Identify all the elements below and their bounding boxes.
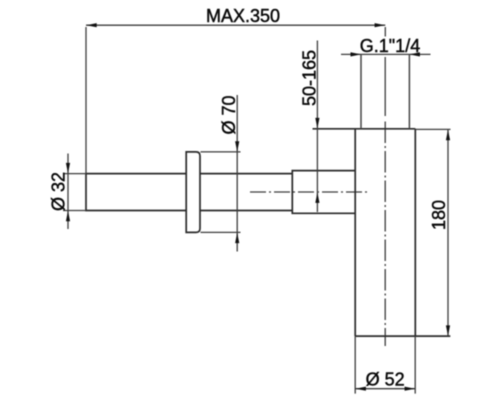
extension lines dia32 pipe bbox=[63, 174, 86, 211]
svg-text:Ø 70: Ø 70 bbox=[219, 95, 239, 134]
inlet pipe bbox=[86, 174, 292, 211]
wall flange bbox=[186, 152, 200, 233]
svg-text:Ø 32: Ø 32 bbox=[48, 172, 68, 211]
dimension line G.1"1/4 bbox=[341, 53, 431, 55]
arrow 50-165 up bbox=[315, 192, 319, 203]
dimension line 180 bbox=[447, 130, 449, 336]
arrow 180 down bbox=[446, 325, 450, 336]
extension line right (riser center) bbox=[384, 27, 386, 37]
riser pipe bbox=[361, 54, 409, 128]
svg-text:G.1"1/4: G.1"1/4 bbox=[360, 36, 420, 56]
arrow dia32 up bbox=[66, 211, 70, 222]
svg-text:50-165: 50-165 bbox=[300, 50, 320, 106]
arrow dia70 up bbox=[235, 233, 239, 244]
arrow dia52 left bbox=[355, 387, 366, 391]
extension lines dia52 bbox=[355, 336, 415, 394]
dimension line dia70 bbox=[236, 95, 238, 252]
centerline inlet horizontal bbox=[250, 191, 370, 193]
dimension line 50-165 bbox=[316, 41, 318, 213]
sleeve nut bbox=[292, 171, 355, 214]
arrow 50-165 down bbox=[315, 118, 319, 128]
arrow dia32 down bbox=[66, 163, 70, 174]
extension line left (pipe end) bbox=[85, 27, 87, 174]
centerline riser vertical lower bbox=[384, 122, 386, 347]
svg-text:180: 180 bbox=[429, 200, 449, 230]
dimension line dia32 bbox=[67, 154, 69, 230]
dimension line MAX.350 bbox=[86, 24, 385, 26]
arrow MAX.350 left bbox=[86, 23, 97, 27]
arrow MAX.350 right bbox=[375, 23, 386, 27]
svg-text:MAX.350: MAX.350 bbox=[206, 6, 280, 26]
arrow dia52 right bbox=[405, 387, 416, 391]
arrow G thread left bbox=[351, 52, 362, 56]
centerline riser vertical upper bbox=[384, 57, 386, 116]
trap body bbox=[313, 129, 451, 336]
dimension line dia52 bbox=[355, 388, 415, 390]
extension line 180 top bbox=[415, 128, 450, 130]
extension lines dia70 flange bbox=[201, 152, 241, 233]
arrow 180 up bbox=[446, 130, 450, 141]
arrow dia70 down bbox=[235, 141, 239, 152]
svg-text:Ø 52: Ø 52 bbox=[366, 369, 405, 389]
arrow G thread right bbox=[409, 52, 420, 56]
